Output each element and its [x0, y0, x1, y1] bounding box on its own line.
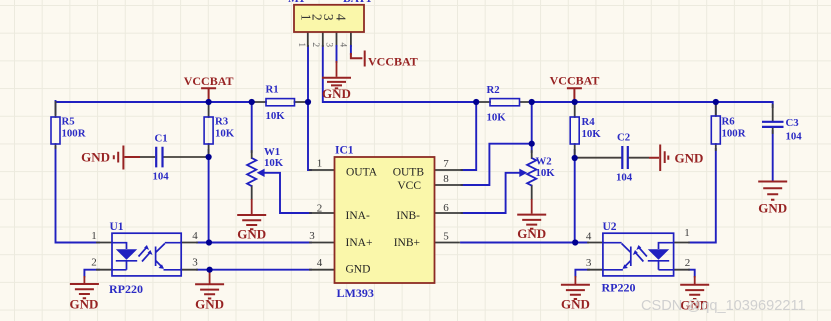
svg-text:VCC: VCC	[397, 180, 421, 192]
svg-text:LM393: LM393	[337, 286, 374, 300]
resistor R6 stubs	[715, 102, 717, 150]
svg-text:2: 2	[310, 42, 320, 47]
wire R3 column down to U1 pin4 row	[208, 150, 210, 243]
resistor R3	[204, 116, 235, 145]
svg-text:GND: GND	[195, 297, 224, 312]
ground right of C2 (horizontal)	[629, 145, 704, 172]
svg-text:U2: U2	[603, 221, 617, 233]
wire R6 column to U2 pin1	[689, 101, 716, 243]
resistor R1 stubs	[254, 101, 307, 103]
svg-text:GND: GND	[70, 297, 99, 312]
svg-text:10K: 10K	[536, 167, 556, 179]
svg-text:VCCBAT: VCCBAT	[368, 55, 418, 69]
svg-text:10K: 10K	[264, 157, 284, 169]
wire IC1 pin6 to W2 wiper	[462, 173, 521, 213]
svg-text:RP220: RP220	[109, 282, 143, 296]
svg-text:1: 1	[684, 227, 690, 239]
wire U2 pin2 to ground drop	[689, 270, 695, 277]
resistor R2	[487, 84, 520, 124]
svg-text:GND: GND	[322, 86, 351, 101]
junction node dots	[206, 99, 719, 273]
svg-text:3: 3	[192, 257, 198, 269]
svg-text:GND: GND	[561, 297, 590, 312]
wire connector pin3 to gnd / pin4 to vccbat (blue parts)	[337, 46, 351, 62]
ground under U1 pin2	[70, 276, 99, 312]
op-amp IC1 LM393	[309, 145, 449, 301]
svg-text:3: 3	[586, 257, 592, 269]
U2 pin stubs	[588, 243, 689, 270]
wire IC1 pin8 VCC to W2 top net	[462, 144, 532, 185]
wire OUTB net (connector pin2 to R2 and IC1 pin7)	[323, 46, 476, 170]
optocoupler U1 RP220	[91, 221, 198, 296]
resistor R1	[266, 84, 295, 123]
resistor R4	[570, 116, 601, 144]
svg-text:U1: U1	[110, 221, 124, 233]
svg-text:R6: R6	[722, 116, 736, 128]
svg-text:W2: W2	[536, 156, 552, 168]
wire C2 left plate to R4 column	[575, 157, 621, 159]
svg-text:1: 1	[296, 42, 306, 47]
svg-text:R3: R3	[215, 116, 229, 128]
svg-text:10K: 10K	[215, 127, 235, 139]
wire R4 column down to U2 pin4 row	[574, 150, 576, 243]
svg-text:104: 104	[153, 171, 170, 183]
svg-text:2: 2	[317, 203, 323, 215]
svg-text:VCCBAT: VCCBAT	[550, 74, 600, 88]
resistor R5	[51, 116, 86, 145]
svg-text:6: 6	[443, 202, 449, 214]
ground under U1 pin3 junction	[195, 270, 224, 312]
wire U1 pin3 row to IC1 pin4	[197, 269, 311, 271]
capacitor C1	[153, 133, 170, 183]
svg-text:GND: GND	[346, 263, 371, 275]
watermark CSDN	[641, 298, 806, 314]
svg-text:CSDN @qq_1039692211: CSDN @qq_1039692211	[641, 298, 806, 314]
svg-text:C2: C2	[617, 132, 630, 144]
svg-text:R1: R1	[266, 84, 279, 96]
svg-text:4: 4	[586, 231, 592, 243]
wire U1 pin2 to ground drop	[84, 270, 99, 277]
svg-text:INA-: INA-	[346, 210, 370, 222]
power VCCBAT right	[550, 74, 600, 102]
svg-text:3: 3	[323, 42, 333, 47]
wire W1 branch from rail	[251, 102, 253, 152]
svg-text:5: 5	[443, 231, 449, 243]
wire U2 pin3 to ground drop	[575, 270, 589, 277]
svg-text:C1: C1	[155, 133, 168, 145]
svg-text:BAT1: BAT1	[343, 0, 372, 5]
svg-text:8: 8	[443, 173, 449, 185]
svg-text:10K: 10K	[487, 112, 507, 124]
svg-text:7: 7	[443, 158, 449, 170]
svg-text:GND: GND	[758, 201, 787, 216]
svg-text:1: 1	[317, 158, 323, 170]
ground under U2 pin2	[680, 276, 709, 313]
svg-text:OUTB: OUTB	[393, 167, 425, 179]
svg-text:OUTA: OUTA	[346, 167, 378, 179]
potentiometer W2	[519, 156, 555, 186]
svg-text:100R: 100R	[722, 127, 746, 139]
svg-text:GND: GND	[675, 151, 704, 166]
wire C1 right plate to R3 column	[164, 156, 209, 158]
wire OUTA net vertical (connector pin1 to IC1 pin1)	[308, 46, 311, 170]
wire left column R5 net	[56, 101, 100, 243]
svg-text:R5: R5	[62, 116, 75, 128]
connector header labels M1 BAT1 (cut off at top)	[288, 0, 372, 5]
svg-text:2: 2	[91, 257, 97, 269]
resistor R4 stubs	[574, 102, 576, 158]
svg-text:INA+: INA+	[346, 237, 373, 249]
potentiometer W1 stubs	[251, 151, 253, 199]
ground left of C1 (horizontal)	[81, 146, 155, 170]
optocoupler U2 RP220 (mirrored)	[586, 221, 690, 295]
wire C3 column to ground	[772, 131, 774, 181]
svg-text:2: 2	[685, 257, 691, 269]
svg-text:10K: 10K	[582, 128, 602, 140]
wire main VCC rail left segment	[56, 101, 255, 103]
svg-text:C3: C3	[786, 117, 800, 129]
svg-text:GND: GND	[237, 227, 266, 242]
resistor R5 stubs	[55, 102, 57, 148]
capacitor C3 stub top	[772, 105, 774, 133]
svg-text:3: 3	[309, 230, 315, 242]
connector M1/BAT1	[294, 5, 364, 32]
svg-text:4: 4	[317, 257, 323, 269]
svg-text:1: 1	[91, 230, 97, 242]
svg-text:RP220: RP220	[602, 281, 636, 295]
svg-text:GND: GND	[81, 150, 110, 165]
resistor R6	[711, 116, 745, 145]
wire W1 wiper to IC1 pin2	[265, 173, 312, 213]
connector pin numbers 1 2 3 4	[296, 42, 348, 47]
connector pins (black)	[308, 32, 351, 46]
resistor R2 stubs	[476, 101, 532, 103]
svg-text:104: 104	[616, 172, 633, 184]
U1 pin stubs	[97, 243, 197, 270]
svg-text:VCCBAT: VCCBAT	[184, 74, 234, 88]
svg-text:10K: 10K	[266, 110, 286, 122]
ground under U2 pin3	[561, 276, 590, 312]
svg-text:R4: R4	[582, 116, 596, 128]
svg-text:INB-: INB-	[396, 210, 420, 222]
wire U1 pin4 row to IC1 pin3	[197, 242, 311, 244]
svg-text:IC1: IC1	[335, 145, 354, 157]
svg-text:4: 4	[333, 14, 348, 21]
potentiometer W2 stubs	[531, 151, 533, 199]
wire W2 branch from rail	[531, 102, 533, 152]
svg-text:M1: M1	[288, 0, 305, 5]
IC1 pin stubs left	[310, 170, 335, 270]
capacitor C2	[616, 132, 633, 184]
svg-text:4: 4	[337, 42, 347, 47]
wire main VCC rail right segment	[532, 102, 773, 107]
IC1 pin stubs right	[435, 170, 463, 243]
ground under W2	[517, 199, 546, 241]
svg-text:INB+: INB+	[394, 237, 420, 249]
ground under C3	[758, 182, 787, 216]
resistor R3 stubs	[208, 102, 210, 157]
svg-text:100R: 100R	[62, 127, 86, 139]
svg-text:GND: GND	[517, 226, 546, 241]
power VCCBAT left	[184, 74, 234, 101]
svg-text:R2: R2	[487, 84, 500, 96]
svg-text:104: 104	[786, 131, 803, 143]
wire IC1 pin5 to U2 pin4 junction	[461, 242, 588, 244]
power VCCBAT at connector pin4	[351, 51, 418, 69]
potentiometer W1	[247, 146, 284, 186]
capacitor C3	[762, 117, 802, 143]
ground under connector pin3	[322, 61, 351, 101]
svg-text:4: 4	[192, 230, 198, 242]
ground under W1	[237, 199, 266, 242]
